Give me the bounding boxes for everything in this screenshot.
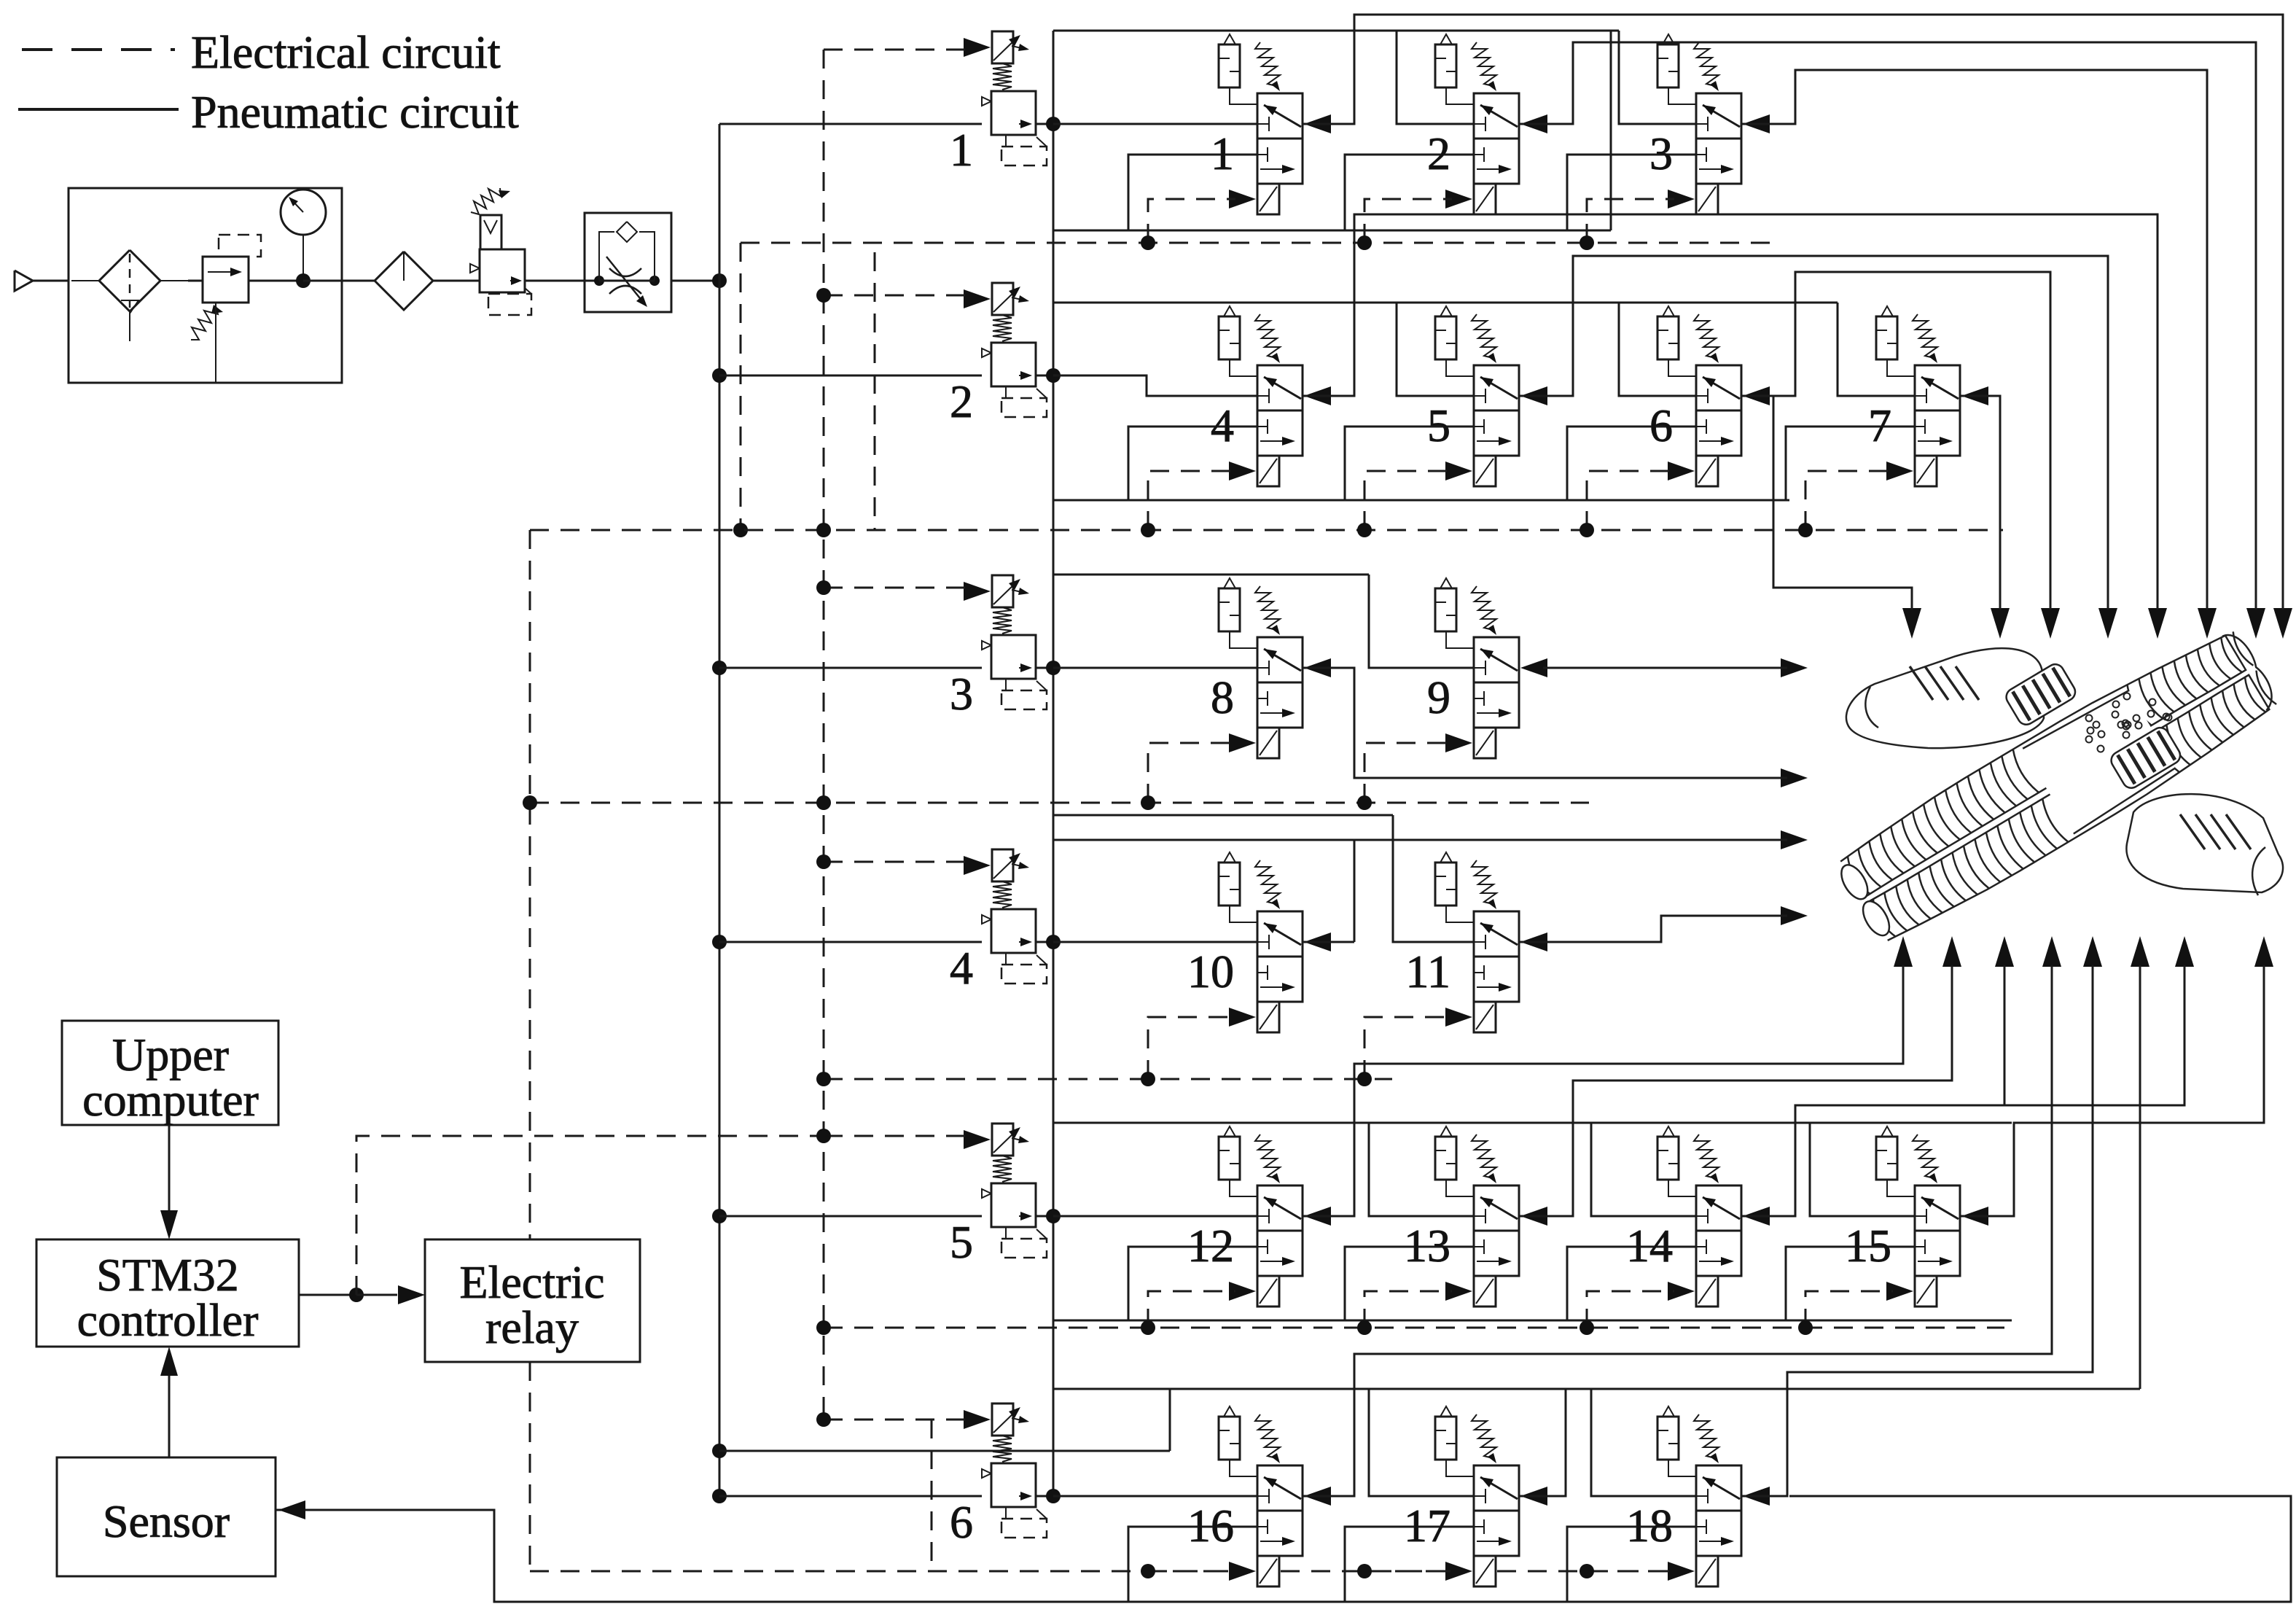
svg-text:Pneumatic circuit: Pneumatic circuit bbox=[191, 86, 519, 138]
svg-text:6: 6 bbox=[950, 1496, 973, 1548]
svg-text:1: 1 bbox=[1211, 128, 1234, 179]
svg-text:8: 8 bbox=[1211, 671, 1234, 723]
svg-text:1: 1 bbox=[950, 124, 973, 176]
svg-text:computer: computer bbox=[82, 1074, 259, 1126]
svg-text:13: 13 bbox=[1404, 1220, 1450, 1272]
svg-text:7: 7 bbox=[1868, 400, 1891, 451]
svg-text:5: 5 bbox=[1427, 400, 1450, 451]
svg-text:3: 3 bbox=[1649, 128, 1673, 179]
svg-text:relay: relay bbox=[485, 1301, 579, 1353]
svg-text:18: 18 bbox=[1626, 1500, 1673, 1551]
svg-text:Sensor: Sensor bbox=[103, 1495, 230, 1547]
svg-text:STM32: STM32 bbox=[96, 1249, 239, 1301]
svg-text:12: 12 bbox=[1187, 1220, 1234, 1272]
svg-text:16: 16 bbox=[1187, 1500, 1234, 1551]
svg-text:4: 4 bbox=[1211, 400, 1234, 451]
svg-text:2: 2 bbox=[1427, 128, 1450, 179]
svg-text:controller: controller bbox=[77, 1294, 259, 1346]
svg-text:5: 5 bbox=[950, 1216, 973, 1268]
svg-text:9: 9 bbox=[1427, 671, 1450, 723]
svg-text:10: 10 bbox=[1187, 946, 1234, 997]
svg-text:14: 14 bbox=[1626, 1220, 1673, 1272]
svg-text:2: 2 bbox=[950, 375, 973, 427]
svg-text:3: 3 bbox=[950, 668, 973, 720]
svg-text:Electrical circuit: Electrical circuit bbox=[191, 26, 501, 78]
svg-text:4: 4 bbox=[950, 942, 973, 994]
svg-text:11: 11 bbox=[1405, 946, 1450, 997]
svg-text:Electric: Electric bbox=[460, 1256, 605, 1308]
svg-text:6: 6 bbox=[1649, 400, 1673, 451]
svg-text:15: 15 bbox=[1845, 1220, 1891, 1272]
svg-text:Upper: Upper bbox=[112, 1029, 229, 1080]
svg-text:17: 17 bbox=[1404, 1500, 1450, 1551]
